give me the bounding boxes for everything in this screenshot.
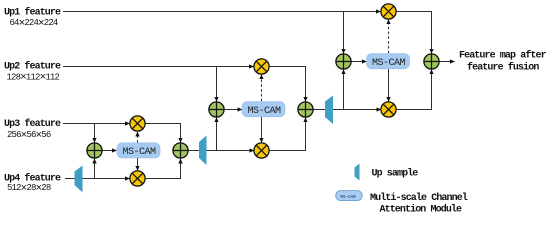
wire multiply X3 to add A4 — [269, 67, 305, 102]
multiply node X6 — [381, 102, 396, 117]
svg-text:512×28×28: 512×28×28 — [7, 183, 51, 195]
svg-text:Multi-scale Channel: Multi-scale Channel — [370, 192, 468, 204]
legend upsample symbol — [355, 164, 360, 181]
add node A2 — [173, 143, 188, 158]
wire MS-CAM M2 to multiply X3 dashed — [261, 75, 263, 102]
wire MS-CAM M3 to multiply X5 dashed — [388, 20, 390, 54]
wire MS-CAM M2 down to multiply X4 — [261, 117, 263, 143]
add node A6 — [424, 54, 439, 69]
legend MS-CAM pill — [336, 191, 363, 201]
wire Up4 line into upsample — [65, 178, 75, 180]
wire MS-CAM M1 to multiply X1 dashed — [137, 132, 139, 143]
svg-text:MS-CAM: MS-CAM — [248, 106, 282, 117]
wire block1 output line to multiply X4 — [207, 150, 254, 152]
multiply node X4 — [254, 143, 269, 158]
wire add A5 to MS-CAM M3 — [351, 61, 366, 63]
MS-CAM module M2 — [242, 102, 285, 117]
wire branch block2 output up to add A5 — [343, 70, 345, 110]
svg-text:Up2 feature: Up2 feature — [4, 61, 61, 73]
multiply node X1 — [130, 116, 145, 131]
svg-text:Up3 feature: Up3 feature — [4, 118, 61, 130]
svg-text:MS-CAM: MS-CAM — [372, 58, 406, 69]
wire multiply X4 to add A4 — [269, 118, 305, 151]
wire branch Up3 down to add A1 — [94, 124, 96, 143]
MS-CAM module M3 — [367, 54, 410, 69]
wire Up1 line — [63, 11, 381, 13]
svg-text:Attention Module: Attention Module — [380, 204, 463, 216]
upsample T1 — [75, 166, 83, 193]
wire Up4 line after upsample — [83, 178, 130, 180]
svg-text:MS-CAM: MS-CAM — [123, 147, 157, 158]
upsample T2 — [199, 136, 207, 166]
add node A3 — [209, 102, 224, 117]
wire Up2 line — [63, 66, 254, 68]
svg-text:Up sample: Up sample — [372, 168, 419, 180]
upsample T3 — [325, 96, 333, 125]
wire branch Up2 down to add A3 — [216, 67, 218, 102]
wire multiply X2 to add A2 — [145, 159, 180, 179]
svg-text:feature fusion: feature fusion — [467, 62, 539, 74]
wire MS-CAM M3 down to multiply X6 — [388, 69, 390, 102]
multiply node X2 — [130, 171, 145, 186]
svg-text:MS-CAM: MS-CAM — [340, 194, 356, 200]
wire multiply X6 to add A6 — [396, 70, 431, 110]
multiply node X5 — [381, 4, 396, 19]
wire final output arrow — [439, 61, 454, 63]
svg-text:256×56×56: 256×56×56 — [7, 130, 51, 142]
wire branch block1 output up to add A3 — [216, 118, 218, 151]
svg-text:128×112×112: 128×112×112 — [7, 72, 60, 84]
wire branch Up1 down to add A5 — [343, 12, 345, 54]
svg-text:64×224×224: 64×224×224 — [10, 18, 58, 30]
wire Up3 line — [63, 123, 130, 125]
svg-text:Feature map after: Feature map after — [459, 50, 547, 62]
wire add A1 to MS-CAM M1 — [102, 150, 116, 152]
wire branch Up4 up to add A1 — [94, 159, 96, 179]
add node A4 — [298, 102, 313, 117]
wire add A2 to upsample T2 — [188, 150, 199, 152]
MS-CAM module M1 — [117, 143, 160, 158]
add node A1 — [87, 143, 102, 158]
multiply node X3 — [254, 59, 269, 74]
wire multiply X1 to add A2 — [145, 124, 180, 143]
wire multiply X5 to add A6 — [396, 12, 431, 54]
svg-text:Up1 feature: Up1 feature — [4, 7, 61, 19]
add node A5 — [336, 54, 351, 69]
wire MS-CAM M1 down to multiply X2 — [137, 158, 139, 170]
wire block2 output line to multiply X6 — [333, 109, 381, 111]
wire add A3 to MS-CAM M2 — [224, 109, 242, 111]
wire add A4 to upsample T3 — [313, 109, 325, 111]
